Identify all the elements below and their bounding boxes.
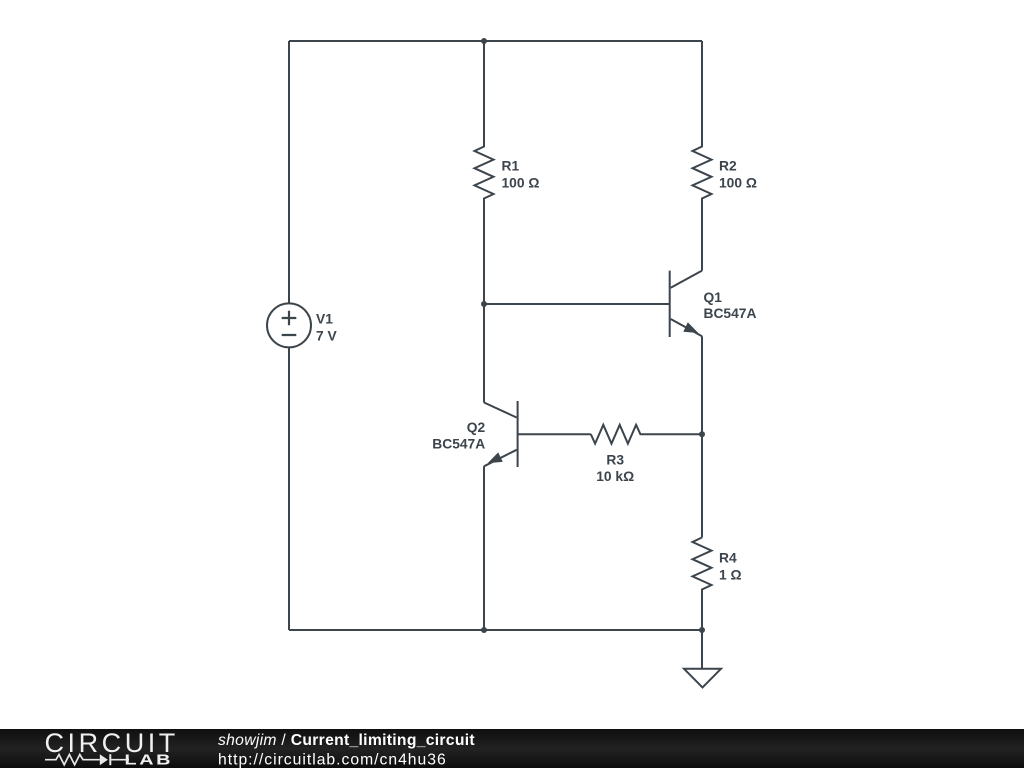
svg-text:R2: R2 — [719, 159, 737, 174]
svg-text:Q1: Q1 — [704, 290, 723, 305]
svg-text:BC547A: BC547A — [704, 306, 757, 321]
svg-text:R1: R1 — [502, 159, 520, 174]
svg-text:Q2: Q2 — [467, 420, 486, 435]
svg-text:http://circuitlab.com/cn4hu36: http://circuitlab.com/cn4hu36 — [218, 752, 447, 768]
svg-text:showjim / Current_limiting_cir: showjim / Current_limiting_circuit — [218, 732, 475, 749]
svg-text:10 kΩ: 10 kΩ — [596, 469, 634, 484]
svg-text:V1: V1 — [316, 311, 333, 326]
svg-text:LAB: LAB — [125, 751, 174, 768]
svg-text:1 Ω: 1 Ω — [719, 567, 742, 582]
svg-text:BC547A: BC547A — [432, 437, 485, 452]
svg-text:7 V: 7 V — [316, 328, 338, 343]
svg-text:R3: R3 — [606, 452, 624, 467]
svg-text:100 Ω: 100 Ω — [719, 176, 757, 191]
svg-text:R4: R4 — [719, 550, 737, 565]
svg-text:100 Ω: 100 Ω — [502, 176, 540, 191]
